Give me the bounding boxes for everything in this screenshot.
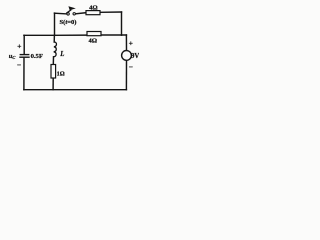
- source V1 9V circle: [122, 51, 132, 61]
- resistor 4ohm (top branch): [86, 11, 100, 15]
- resistor 4ohm (middle wire): [87, 32, 101, 36]
- svg-text:L: L: [59, 51, 64, 58]
- svg-text:+: +: [129, 38, 133, 47]
- wire top branch left segment to switch: [55, 12, 67, 15]
- wire 1ohm box to bottom wire: [52, 78, 54, 90]
- wire mid right of 4ohm box to right edge: [101, 34, 126, 36]
- wire top branch between switch and resistor: [75, 13, 86, 14]
- switch S(t=0): [66, 6, 76, 15]
- svg-text:−: −: [17, 61, 21, 70]
- wire left vertical upper (capacitor branch top): [23, 35, 25, 54]
- wire switch-branch riser at x=54.5: [54, 13, 56, 35]
- svg-text:+: +: [17, 41, 21, 50]
- svg-text:−: −: [129, 62, 133, 71]
- wire bottom horizontal: [24, 89, 127, 91]
- wire top branch right of resistor: [100, 11, 122, 13]
- wire top-branch drop at x=121.5: [121, 12, 123, 35]
- svg-text:1Ω: 1Ω: [57, 71, 65, 78]
- wire inductor branch: junction down to coil: [53, 35, 55, 42]
- svg-text:9V: 9V: [131, 53, 139, 60]
- capacitor C 0.5F plates: [20, 55, 29, 58]
- svg-text:S(t=0): S(t=0): [60, 19, 77, 26]
- svg-text:0.5F: 0.5F: [31, 53, 43, 60]
- wire right vertical below source: [125, 60, 127, 89]
- wire coil bottom to 1ohm box: [52, 57, 54, 65]
- svg-text:4Ω: 4Ω: [89, 4, 98, 11]
- wire left vertical lower: [23, 58, 25, 90]
- svg-text:4Ω: 4Ω: [89, 38, 98, 45]
- resistor 1ohm: [51, 65, 56, 79]
- inductor L coil: [54, 42, 57, 57]
- wire right vertical above source: [125, 35, 127, 51]
- wire top-left horizontal (main mid wire, left of junction): [24, 34, 55, 36]
- wire mid between junction and 4ohm box: [55, 34, 88, 36]
